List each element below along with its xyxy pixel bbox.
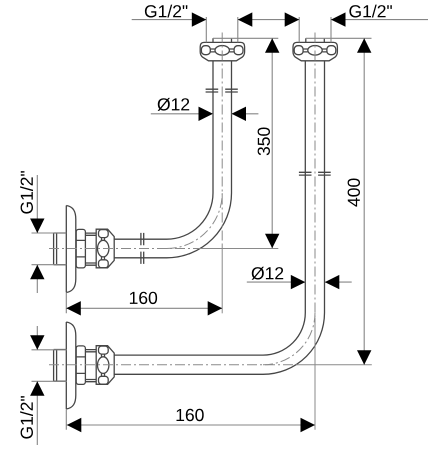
arrow G1/2 left-lower down [30,335,44,350]
extension line pipe1 centerline to 160 dim [221,244,223,313]
hex nut lower [76,346,85,385]
wall thread stub lower [54,350,67,382]
centerline pipe1 bend arc [167,193,223,249]
dim 160 upper: lines [66,293,222,313]
extension line pipe2 centerline to 160 dim [314,318,316,430]
wall thread stub upper [54,233,67,265]
label G1/2 top-right [349,5,392,18]
swivel nut lower (wall side) [96,346,114,385]
top swivel nut left (with stub) [200,38,244,61]
arrow dia12 lower left-pointing [325,275,340,289]
arrow G1/2 top-left left-pointing [238,12,253,26]
coupling sleeve upper [85,233,96,265]
label dia12 upper [158,98,190,111]
label dia12 lower [252,267,284,280]
arrow G1/2 left-upper down [30,219,44,234]
arrow G1/2 left-lower up [30,381,44,396]
dim G1/2 top-left: lines [132,17,300,42]
dim dia12 lower: lines [247,281,352,283]
arrow dia12 lower right-pointing [291,275,306,289]
extension line pipe2 centerline to 400 dim [296,364,372,366]
dim G1/2 left-upper: lines [32,175,67,293]
arrow dia12 upper left-pointing [232,107,247,121]
centerline pipe1 horizontal [49,248,200,250]
swivel nut upper (wall side) [96,229,114,268]
pipe 1 (upper L-pipe) outer edge [114,61,231,258]
centerline pipe2 vertical [314,33,316,319]
arrow G1/2 left-upper up [30,265,44,280]
escutcheon flange lower [66,322,76,409]
centerline pipe1 vertical [221,33,223,245]
label G1/2 left-lower [20,396,33,439]
label 400 [348,179,360,207]
pipe 2 (lower L-pipe) inner edge [114,61,305,355]
arrow dia12 upper right-pointing [199,107,214,121]
arrow 350 up [265,38,279,53]
extension line pipe1 centerline to 350 dim [200,248,278,250]
top swivel nut right (with stub) [293,38,337,61]
dim 160 lower: lines [66,409,315,430]
break mark pipe1 horizontal section [141,233,144,264]
label 160 lower [177,409,204,421]
arrow G1/2 top-left right-pointing [192,12,207,26]
pipe 2 (lower L-pipe) outer edge [114,61,324,375]
dim dia12 upper: lines [151,113,259,115]
centerline pipe2 bend arc [263,313,315,365]
pipe 1 (upper L-pipe) inner edge [114,61,213,239]
label G1/2 left-upper [20,171,33,214]
arrow G1/2 top-right right-pointing [285,12,300,26]
break mark pipe1 vertical section [206,89,238,92]
break mark pipe2 vertical section [299,172,331,175]
escutcheon flange upper [66,206,76,293]
label 160 upper [130,292,157,304]
arrow 160 lower left-pointing [67,418,82,432]
dim 350: lines [213,38,278,248]
hex nut upper [76,229,85,268]
arrow G1/2 top-right left-pointing [331,12,346,26]
arrow 160 lower right-pointing [301,418,316,432]
dim G1/2 top-right: lines [299,17,428,42]
arrow 160 upper left-pointing [66,301,81,315]
label G1/2 top-left [145,5,188,18]
label 350 [258,128,270,156]
arrow 350 down [265,234,279,249]
arrow 400 down [357,350,371,365]
dim 400: lines [306,38,372,365]
centerline pipe2 horizontal [49,364,296,366]
arrow 160 upper right-pointing [208,301,223,315]
dim G1/2 left-lower: lines [32,326,67,445]
arrow 400 up [357,38,371,53]
coupling sleeve lower [85,350,96,382]
